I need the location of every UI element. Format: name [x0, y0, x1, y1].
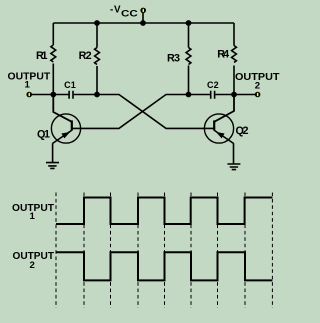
node rail/R2 junction [94, 20, 100, 26]
wire node B2 to C2 [189, 94, 211, 96]
wire R1 bottom to output node 1 [52, 64, 54, 95]
terminal -VCC [140, 8, 146, 14]
wire R3 bottom to node B2 [188, 66, 190, 95]
wire crossover node B2 to Q1 base [72, 95, 189, 129]
svg-text:1: 1 [30, 211, 36, 222]
wire R4 bottom to output node 2 [233, 66, 235, 95]
svg-text:CC: CC [121, 8, 138, 18]
transistor Q1 [51, 95, 80, 144]
wire C2 to Q2 collector node [215, 94, 234, 96]
svg-text:1: 1 [25, 80, 31, 91]
wire Q1 emitter to ground [52, 143, 54, 162]
terminal OUTPUT 2 [255, 92, 261, 98]
label waveform OUTPUT 2 [13, 251, 55, 271]
wire to output terminal 2 [234, 94, 255, 96]
wire Q2 emitter to ground [233, 143, 235, 164]
terminal OUTPUT 1 [26, 92, 32, 98]
capacitor C2 [211, 91, 215, 99]
resistor R3 [186, 48, 191, 65]
capacitor C1 [69, 91, 73, 99]
svg-text:R4: R4 [217, 48, 229, 60]
node R2 bottom junction B1 [94, 92, 100, 98]
wire rail to R1 top [52, 23, 54, 45]
node R3 bottom junction B2 [186, 92, 192, 98]
resistor R2 [95, 48, 100, 65]
wire top -VCC rail [53, 22, 234, 24]
label OUTPUT 2 [235, 72, 280, 92]
node Q1 collector junction [50, 92, 56, 98]
node VCC rail junction [140, 20, 146, 26]
svg-text:Q1: Q1 [37, 128, 50, 140]
svg-text:2: 2 [30, 260, 35, 271]
label waveform OUTPUT 1 [12, 203, 55, 222]
ground Q2 [227, 164, 240, 170]
wire output terminal 1 to C1 [32, 94, 69, 96]
wire rail to R3 top [188, 23, 190, 48]
label -VCC [110, 5, 138, 19]
wire R2 bottom to node B1 [96, 66, 98, 95]
svg-text:R2: R2 [79, 50, 92, 62]
wire rail to R4 top [233, 23, 235, 46]
resistor R1 [51, 45, 56, 62]
timing grid dashed lines [56, 193, 272, 309]
ground Q1 [46, 163, 59, 169]
label OUTPUT 1 [8, 71, 51, 90]
node rail/R3 junction [186, 20, 192, 26]
svg-text:2: 2 [255, 81, 260, 92]
wire crossover node B1 to Q2 base [97, 95, 214, 129]
svg-text:C2: C2 [207, 80, 219, 90]
wire -VCC terminal to rail [142, 13, 144, 23]
waveform OUTPUT 1 [56, 198, 272, 225]
svg-text:C1: C1 [64, 80, 76, 90]
waveform OUTPUT 2 [56, 252, 272, 280]
node Q2 collector junction [231, 92, 237, 98]
svg-text:Q2: Q2 [236, 125, 249, 137]
svg-text:R3: R3 [167, 52, 180, 64]
wire C1 to node B1 [74, 94, 97, 96]
wire rail to R2 top [96, 23, 98, 48]
svg-text:-V: -V [110, 5, 121, 16]
svg-text:R1: R1 [36, 50, 48, 62]
transistor Q2 [204, 95, 234, 144]
resistor R4 [232, 46, 237, 63]
